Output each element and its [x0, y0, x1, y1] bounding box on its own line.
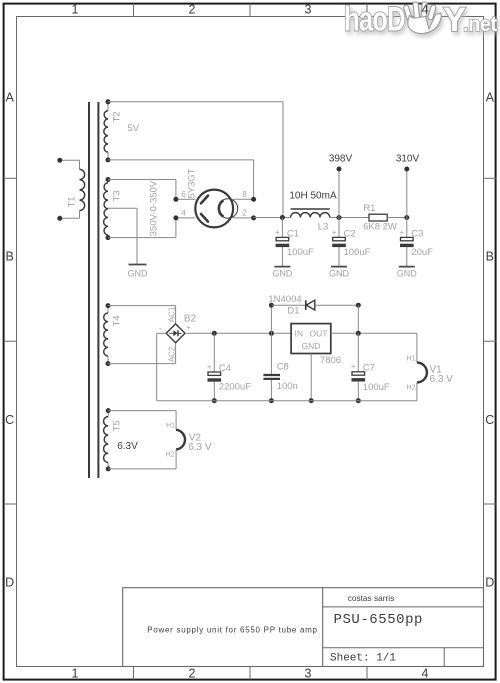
wire V1 bottom: [416, 383, 418, 401]
heater V2: [166, 423, 212, 459]
wire C7 top: [357, 333, 359, 372]
svg-text:C4: C4: [219, 363, 231, 374]
wire C7 bottom: [356, 381, 361, 403]
node C7 top: [356, 331, 361, 336]
capacitor C7: [351, 362, 365, 381]
svg-text:2: 2: [242, 209, 247, 218]
wire C1 top: [281, 218, 283, 238]
wire C1 bottom: [281, 247, 283, 267]
svg-text:+: +: [351, 362, 356, 371]
svg-text:6K8 2W: 6K8 2W: [363, 222, 397, 233]
wire C8 bottom: [269, 380, 274, 403]
wire 5V bottom to pin 8: [108, 160, 254, 199]
svg-text:T5: T5: [112, 420, 123, 431]
wire T5 top to V2: [108, 411, 176, 430]
inductor L3: [289, 190, 337, 232]
svg-text:T1: T1: [67, 196, 78, 207]
wire C8 top: [270, 333, 272, 374]
svg-text:+: +: [207, 362, 212, 371]
regulator U2 7806: [291, 324, 341, 366]
wire 7806 GND pin: [309, 354, 314, 404]
wire 310V branch: [406, 169, 408, 218]
pin 2: [233, 209, 256, 221]
svg-text:1: 1: [72, 667, 79, 681]
svg-text:100uF: 100uF: [363, 382, 390, 393]
svg-text:8: 8: [242, 190, 247, 199]
wire T3 bottom to pin 4: [108, 218, 176, 238]
wire 5V top to B+ rail: [108, 102, 283, 218]
svg-text:7806: 7806: [320, 355, 341, 366]
svg-text:costas sarris: costas sarris: [348, 593, 395, 603]
transformer T1 core: [89, 102, 98, 478]
svg-text:D: D: [485, 576, 494, 590]
wire C3 top: [406, 218, 408, 238]
wire bridge plus to 7806 IN: [185, 332, 291, 334]
node 398V/C2: [337, 215, 342, 220]
frame column ticks: [134, 4, 368, 680]
transformer winding T3: [104, 177, 160, 240]
svg-text:C3: C3: [411, 228, 423, 239]
wire C2 bottom: [338, 247, 340, 267]
wire OUT to V1: [416, 333, 418, 362]
svg-text:2: 2: [189, 3, 196, 17]
pin 6: [173, 190, 195, 202]
svg-text:5V: 5V: [128, 123, 140, 134]
svg-text:Sheet: 1/1: Sheet: 1/1: [330, 653, 396, 665]
pin 8: [233, 190, 256, 202]
svg-text:1: 1: [72, 3, 79, 17]
transformer winding T5: [104, 408, 139, 471]
svg-text:+: +: [399, 228, 404, 237]
svg-text:1N4004: 1N4004: [268, 294, 301, 305]
tube 5Y3GT U1: [186, 168, 237, 227]
ground C1: [272, 267, 293, 279]
svg-text:Power supply unit for 6550 PP: Power supply unit for 6550 PP tube amp: [147, 626, 317, 635]
ground C2: [329, 267, 350, 279]
node C4 top: [212, 331, 217, 336]
wire D1 right branch: [315, 303, 361, 334]
svg-text:AC2: AC2: [167, 346, 176, 362]
wire T4 bottom to bridge AC2: [108, 343, 176, 364]
logo haoDVY.net watermark: [344, 1, 497, 39]
wire L3 to R1: [330, 217, 369, 219]
svg-text:B: B: [6, 250, 14, 264]
svg-text:350V-0-350V: 350V-0-350V: [149, 180, 160, 236]
svg-text:IN: IN: [295, 328, 304, 338]
svg-text:+: +: [332, 228, 337, 237]
svg-text:4: 4: [422, 3, 429, 17]
svg-text:2: 2: [189, 667, 196, 681]
svg-text:310V: 310V: [396, 153, 420, 164]
svg-text:GND: GND: [128, 269, 149, 279]
pin 4: [173, 209, 195, 221]
svg-text:H2: H2: [166, 451, 175, 458]
svg-text:GND: GND: [397, 268, 418, 278]
svg-text:GND: GND: [302, 341, 321, 351]
wire 398V branch: [338, 169, 340, 218]
wire C2 top: [338, 218, 340, 238]
svg-text:100n: 100n: [277, 381, 298, 392]
svg-text:2200uF: 2200uF: [219, 382, 251, 393]
svg-text:B: B: [486, 250, 494, 264]
svg-text:-: -: [159, 324, 162, 333]
diode D1 1N4004: [268, 294, 314, 316]
svg-text:4: 4: [181, 209, 186, 218]
svg-text:6.3 V: 6.3 V: [430, 374, 454, 385]
svg-text:+: +: [275, 228, 280, 237]
wire C4 bottom: [212, 382, 217, 404]
svg-text:6: 6: [181, 190, 186, 199]
resistor R1: [363, 203, 397, 233]
svg-text:10H 50mA: 10H 50mA: [289, 190, 337, 201]
svg-text:haoD: haoD: [344, 1, 405, 39]
svg-text:A: A: [486, 91, 495, 105]
svg-text:20uF: 20uF: [411, 247, 433, 258]
svg-text:A: A: [6, 91, 15, 105]
svg-text:C7: C7: [363, 363, 375, 374]
svg-text:C1: C1: [287, 228, 299, 239]
svg-text:C8: C8: [277, 362, 289, 373]
bridge rectifier B2: [159, 306, 197, 362]
svg-text:AC1: AC1: [167, 306, 176, 322]
wire V2 bottom loop: [108, 450, 176, 469]
svg-text:3: 3: [305, 3, 312, 17]
transformer winding T2: [104, 99, 140, 162]
wire C4 top: [213, 333, 215, 372]
svg-text:398V: 398V: [329, 153, 353, 164]
wire D1 left branch: [269, 303, 306, 334]
title block: [123, 588, 484, 667]
wire T4 top to bridge AC1: [108, 306, 176, 324]
wire T3 top to pin 6: [108, 180, 176, 200]
svg-text:6.3 V: 6.3 V: [188, 442, 212, 453]
svg-text:C: C: [485, 413, 494, 427]
svg-text:L3: L3: [318, 222, 329, 233]
svg-text:+: +: [186, 323, 191, 332]
capacitor C2: [332, 228, 346, 247]
svg-text:D1: D1: [287, 306, 299, 317]
heater V1: [407, 355, 454, 391]
node 310V/C3: [404, 215, 409, 220]
terminal 398V: [329, 153, 353, 171]
ground T3 tap: [128, 265, 149, 279]
svg-text:H1: H1: [407, 355, 416, 362]
svg-text:H2: H2: [407, 384, 416, 391]
wire R1 to C3 node: [387, 217, 407, 219]
wire bridge minus to bottom rail: [157, 333, 167, 400]
node C1/5V junction: [280, 215, 285, 220]
svg-text:T2: T2: [112, 111, 123, 122]
terminal 310V: [396, 153, 420, 171]
transformer winding T4: [104, 303, 123, 366]
svg-text:T4: T4: [112, 315, 123, 326]
capacitor C4: [207, 362, 221, 381]
wire 7806 OUT rail: [331, 332, 417, 334]
svg-text:100uF: 100uF: [287, 247, 314, 258]
svg-text:OUT: OUT: [310, 328, 328, 338]
svg-text:T3: T3: [112, 190, 123, 201]
wire B+ rail pin2 to L3: [254, 217, 291, 219]
ground C3: [397, 267, 418, 279]
svg-text:C: C: [5, 413, 14, 427]
svg-text:5Y3GT: 5Y3GT: [186, 168, 197, 198]
svg-text:.net: .net: [463, 12, 497, 36]
transformer primary T1: [57, 158, 84, 221]
svg-text:100uF: 100uF: [344, 247, 371, 258]
svg-text:R1: R1: [363, 203, 375, 214]
svg-text:H1: H1: [166, 423, 175, 430]
svg-text:4: 4: [422, 667, 429, 681]
svg-text:GND: GND: [272, 268, 293, 278]
svg-text:3: 3: [305, 667, 312, 681]
wire C3 bottom: [406, 247, 408, 267]
svg-text:C2: C2: [344, 228, 356, 239]
svg-text:GND: GND: [329, 268, 350, 278]
svg-text:D: D: [5, 576, 14, 590]
wire T3 center tap to ground: [108, 208, 137, 264]
node C8/D1: [269, 331, 274, 336]
capacitor C1: [275, 228, 289, 247]
capacitor C3: [399, 228, 413, 247]
svg-text:PSU-6550pp: PSU-6550pp: [334, 612, 424, 628]
wire bottom rail: [157, 400, 417, 402]
capacitor C8: [263, 362, 297, 392]
svg-text:6.3V: 6.3V: [117, 441, 138, 452]
frame row ticks: [4, 178, 497, 504]
